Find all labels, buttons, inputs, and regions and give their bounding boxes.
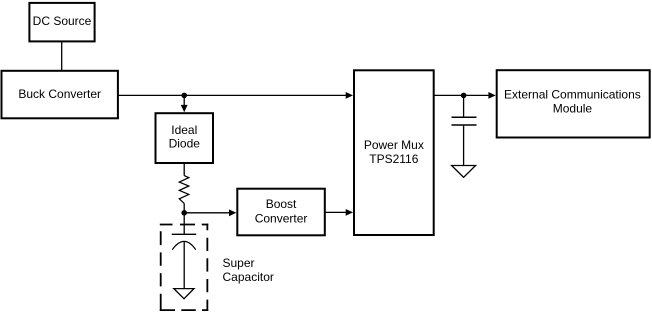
wire Boost Converter to Power Mux IN2	[325, 211, 347, 213]
svg-text:Boost: Boost	[266, 197, 297, 211]
ground (output capacitor)	[452, 166, 476, 178]
svg-text:Power Mux: Power Mux	[364, 138, 424, 152]
svg-text:Ideal: Ideal	[171, 123, 197, 137]
block Boost Converter	[237, 189, 324, 236]
wire junction to Ideal Diode	[183, 95, 185, 106]
block DC Source	[29, 3, 94, 42]
wire resistor to junction	[183, 203, 185, 212]
svg-text:Module: Module	[553, 102, 593, 116]
block External Communications Module	[497, 70, 650, 137]
ground (super capacitor)	[174, 289, 194, 299]
output capacitor bottom plate	[452, 124, 477, 126]
wire junction to output capacitor	[463, 95, 465, 117]
svg-text:Super: Super	[223, 256, 255, 270]
wire junction down to super capacitor top plate	[183, 213, 185, 235]
arrowhead into Ideal Diode	[181, 105, 188, 112]
svg-text:Diode: Diode	[169, 137, 201, 151]
super capacitor C (polarized): curved plate	[172, 241, 195, 249]
wire output capacitor to ground	[463, 125, 465, 166]
wire DC Source to Buck Converter	[61, 41, 63, 70]
arrowhead into External Communications Module	[488, 92, 495, 99]
node junction on output wire	[461, 93, 467, 99]
super capacitor C (polarized): flat plate	[172, 233, 197, 235]
svg-text:External Communications: External Communications	[504, 87, 641, 101]
output capacitor top plate	[452, 116, 477, 118]
wire Buck Converter to Power Mux IN1	[118, 94, 347, 96]
block Buck Converter	[2, 71, 118, 119]
arrowhead into Boost Converter	[229, 209, 236, 216]
node junction above super capacitor	[181, 210, 187, 216]
label Super Capacitor	[223, 256, 274, 284]
wire junction to Boost Converter	[184, 212, 230, 214]
wire Power Mux output to External Communications Module	[434, 94, 489, 96]
svg-text:Converter: Converter	[255, 211, 308, 225]
svg-text:Buck Converter: Buck Converter	[18, 87, 101, 101]
arrowhead into Power Mux IN2	[346, 209, 353, 216]
node junction on IN1 wire	[181, 93, 187, 99]
wire super capacitor curved plate to ground	[183, 242, 185, 289]
block Ideal Diode	[156, 113, 214, 163]
super capacitor dashed enclosure	[160, 224, 208, 311]
resistor (charge current limit)	[179, 176, 189, 204]
wire Ideal Diode to resistor	[183, 163, 185, 176]
svg-text:TPS2116: TPS2116	[369, 152, 418, 166]
block Power Mux TPS2116	[354, 70, 434, 235]
svg-text:Capacitor: Capacitor	[223, 270, 274, 284]
arrowhead into Power Mux IN1	[346, 92, 353, 99]
svg-text:DC Source: DC Source	[33, 14, 92, 28]
